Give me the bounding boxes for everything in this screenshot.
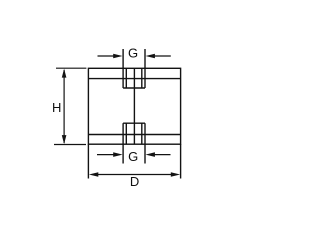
arrowhead bottom G right (points left) <box>146 152 155 157</box>
D extension line right (body side extended) <box>180 144 182 178</box>
D extension line left (body side extended) <box>87 144 89 178</box>
arrowhead D right <box>171 172 180 177</box>
bottom thread hole: outer right vertical + G extension below <box>144 123 146 163</box>
bottom G dimension tail left <box>97 154 114 156</box>
svg-text:D: D <box>130 174 139 189</box>
bottom thread hole: top line <box>123 122 145 124</box>
D dimension line <box>98 174 172 176</box>
top G dimension tail left <box>98 55 115 57</box>
svg-text:G: G <box>128 46 138 61</box>
top G dimension tail right <box>154 55 171 57</box>
arrowhead H down <box>62 135 67 144</box>
bottom G dimension tail right <box>154 154 171 156</box>
arrowhead H up <box>62 69 67 78</box>
top thread hole: bottom line <box>123 87 145 89</box>
body outline <box>88 68 180 144</box>
arrowhead bottom G left (points right) <box>113 152 122 157</box>
bottom thread hole: inner left vertical <box>125 123 127 144</box>
svg-text:G: G <box>128 149 138 164</box>
H bottom extension line <box>54 144 86 146</box>
H top extension line <box>56 67 86 69</box>
arrowhead top G right (points left) <box>146 54 155 59</box>
svg-text:H: H <box>52 100 61 115</box>
top thread hole: outer left vertical + G extension above <box>122 49 124 88</box>
top thread hole: inner left vertical <box>125 68 127 88</box>
centerline <box>133 68 135 144</box>
bottom plate line <box>88 134 180 136</box>
arrowhead D left <box>89 172 98 177</box>
bottom thread hole: outer left vertical + G extension below <box>122 123 124 163</box>
bottom thread hole: inner right vertical <box>141 123 143 144</box>
top thread hole: outer right vertical + G extension above <box>144 49 146 88</box>
H dimension line <box>63 70 65 143</box>
top thread hole: inner right vertical <box>141 68 143 88</box>
arrowhead top G left (points right) <box>113 54 122 59</box>
top plate line <box>88 78 180 80</box>
